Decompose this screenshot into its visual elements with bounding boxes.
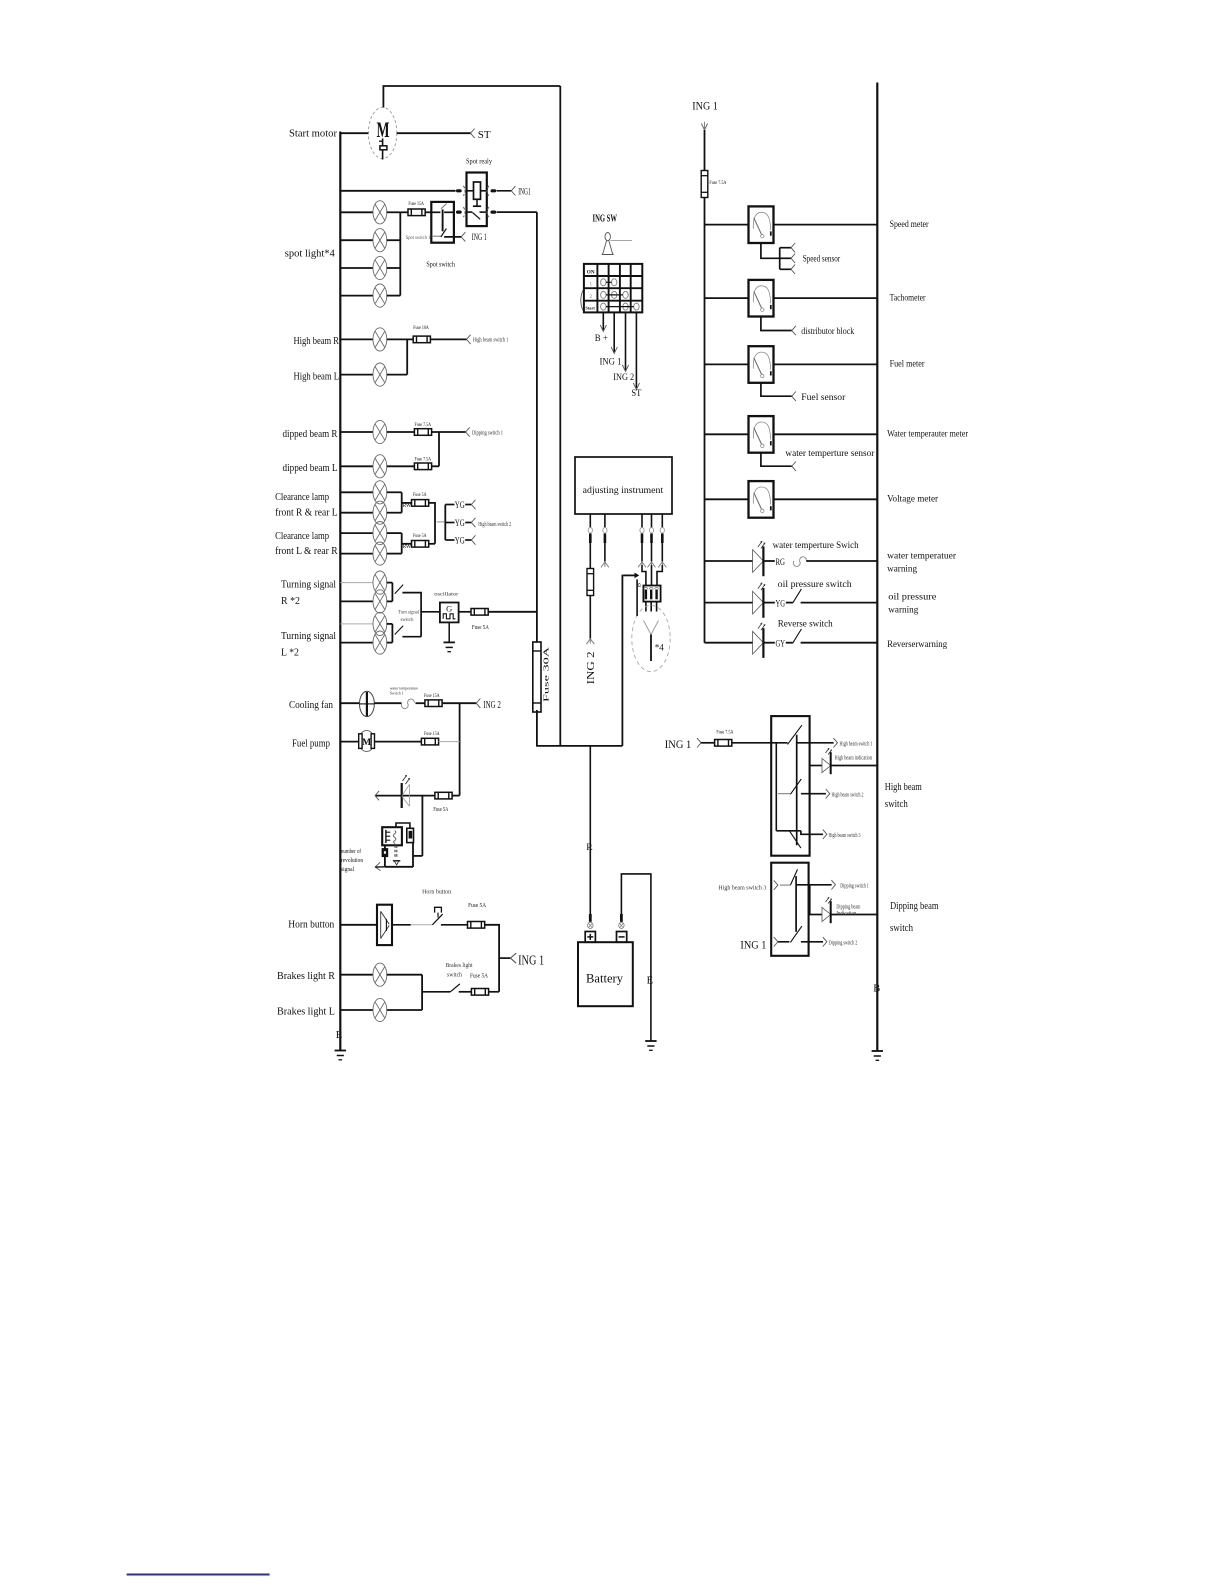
svg-text:dipped beam R: dipped beam R (283, 429, 338, 440)
svg-text:Speed sensor: Speed sensor (803, 254, 841, 264)
svg-text:Turn signal: Turn signal (398, 610, 419, 616)
svg-text:B: B (636, 582, 643, 587)
start motor M1 body dashed circle (368, 107, 396, 158)
svg-text:Fuse 7.5A: Fuse 7.5A (709, 180, 726, 186)
svg-text:Voltage meter: Voltage meter (887, 495, 939, 505)
wire ING1 bus to Voltage meter (705, 498, 749, 500)
lamp high beam L (373, 363, 387, 386)
wire right ING1 bus (704, 130, 706, 643)
svg-text:water temperture Swich: water temperture Swich (773, 541, 859, 551)
svg-text:Water temperauter meter: Water temperauter meter (887, 430, 969, 440)
fuse F fan 15A (425, 700, 442, 707)
lamp dipped beam R (373, 420, 387, 443)
fuse Fuse 30A on vertical branch (533, 642, 541, 712)
wire indication row (810, 765, 822, 767)
arrow ING SW terminal B + (600, 325, 606, 332)
wire ING1 branch vertical from spot relay (536, 212, 538, 643)
wire turn switch to oscillator (421, 611, 440, 613)
meter Tachometer (749, 280, 774, 317)
wire sensor pin down (661, 543, 663, 562)
svg-text:adjusting instrument: adjusting instrument (583, 486, 664, 496)
connector plug pin 1 (588, 528, 592, 544)
wire junction to YG connector block dash (437, 521, 444, 523)
wire ING1 bus to Water temperauter meter (705, 433, 749, 435)
svg-text:front L & rear R: front L & rear R (275, 546, 338, 557)
wire bus to horn (340, 924, 377, 926)
svg-text:Dipping beam: Dipping beam (890, 901, 939, 912)
wire brakes fuse to ING1 branch (489, 991, 500, 993)
connector arrow ING1 relay (511, 186, 515, 195)
wire fuse to high beam switch box (732, 742, 771, 744)
oscillator square wave (443, 614, 455, 619)
svg-text:ING1: ING1 (518, 188, 531, 198)
svg-text:ST: ST (478, 129, 491, 141)
wire clearance group2 collector (401, 533, 403, 554)
wire turning R lamp2 to joint (387, 600, 393, 602)
wire pin3 jog to rectifier (642, 565, 646, 586)
rectifier block (643, 586, 660, 602)
wire collector to fuse clearance 1 (402, 502, 412, 504)
horn push button actuator (435, 907, 442, 917)
fuse F clearance2 5A (412, 541, 429, 548)
lamp spot light 4 (373, 284, 387, 307)
meter Water temperauter meter (749, 416, 774, 453)
wire clearance lamp 2 to collector (387, 512, 402, 514)
svg-text:ING 1: ING 1 (665, 737, 692, 751)
ING SW connector table (584, 264, 642, 313)
wire horn switch to fuse (441, 924, 468, 926)
svg-text:High beam R: High beam R (294, 336, 340, 347)
wire bus to fuel pump (340, 741, 359, 743)
wire dipping indication to right bus (831, 914, 878, 916)
connector arrow ING 1 spot switch (461, 232, 465, 241)
arrow out1 (833, 738, 837, 747)
lamp spot light 2 (373, 229, 387, 252)
cooling fan motor symbol (360, 691, 375, 716)
wire bus to clearance lamp 4 (340, 553, 373, 555)
arrow ING 1 dipping (774, 937, 778, 946)
wire brakes switch to fuse (459, 991, 472, 993)
lamp clearance 4 (373, 542, 387, 565)
svg-text:High beam switch 3: High beam switch 3 (829, 833, 861, 839)
ground symbol left bus (335, 1051, 346, 1060)
arrow out3 (823, 830, 827, 839)
svg-text:oil pressure: oil pressure (888, 593, 936, 603)
wire alternator B output (623, 573, 639, 616)
wire high beam L lamp to junction (387, 374, 408, 376)
wire adjusting instrument pin 2 (604, 514, 606, 528)
wire dipping indication row (809, 914, 822, 916)
wire bus to spot lamp 4 (340, 295, 373, 297)
wire below Fuse 30A to bottom bus (536, 710, 538, 746)
wire warning to right bus (801, 602, 878, 604)
svg-text:Fuse 7.5A: Fuse 7.5A (716, 730, 733, 736)
connector plug pin 3 (640, 528, 644, 544)
switch blade oil pressure switch (793, 589, 802, 603)
wire spot lamp 1 to collector (387, 211, 401, 213)
svg-text:M: M (377, 117, 390, 142)
wire ING1 bus to warning 2 (705, 602, 753, 604)
svg-text:Fuse 15A: Fuse 15A (408, 201, 424, 207)
wire water temp meter to sensor (761, 453, 792, 467)
thermal switch water warning (793, 557, 806, 567)
wire turning L lamp2 to joint (387, 642, 393, 644)
wire GY stub (786, 642, 793, 644)
wire relay coil internal (467, 190, 487, 192)
svg-text:dipped beam L: dipped beam L (283, 463, 338, 474)
wire ING1 bus to Tachometer (705, 297, 749, 299)
lamp clearance 1 (373, 481, 387, 504)
svg-text:Clearance lamp: Clearance lamp (275, 531, 329, 542)
svg-text:oscillator: oscillator (434, 591, 458, 597)
wire left main earth bus (339, 132, 341, 1050)
wire flasher fuse to ING1 branch (488, 611, 537, 613)
wire alternator B output down to bottom bus (621, 575, 623, 746)
svg-text:RG: RG (776, 558, 786, 568)
wire bus to dipped beam L lamp (340, 465, 373, 467)
connector pair relay coil left (456, 186, 465, 196)
connector arrow dipping switch 1 (466, 427, 470, 436)
indicator lamp warning 2 (753, 583, 765, 618)
wire YG stub 2 (445, 522, 454, 524)
wire YG stub 1 (445, 504, 454, 506)
wire battery positive drop (589, 746, 591, 914)
battery BT1 box (578, 942, 633, 1006)
arrow sensor pin (648, 562, 656, 567)
wire sensor pin down (651, 543, 653, 562)
wire brakes R lamp to joint (387, 974, 422, 976)
wire horn contact gray (411, 924, 433, 926)
wire indication to right bus (831, 765, 878, 767)
battery negative terminal (617, 932, 627, 943)
wire pin1 to fuse (589, 543, 591, 568)
svg-text:RW: RW (403, 543, 412, 550)
wire ING1 bus to warning 3 (705, 642, 753, 644)
lamp spot light 1 (373, 201, 387, 224)
wire spot lamp collector vertical (399, 212, 401, 295)
indicator lamp dipping beam (822, 898, 832, 924)
wire clearance lamp 3 to collector (387, 532, 402, 534)
wire bus to high beam R lamp (340, 338, 373, 340)
wire bus to clearance lamp 3 (340, 532, 373, 534)
svg-text:High beam switch 1: High beam switch 1 (840, 742, 873, 748)
connector arrow speed sensor pin (791, 243, 795, 252)
wire adjusting instrument pin 5 (661, 514, 663, 528)
wire turning L lamp1 to joint (387, 623, 393, 625)
battery positive clamp (588, 922, 593, 928)
ignition device assembly (382, 823, 422, 867)
svg-text:Fuse 5A: Fuse 5A (413, 533, 427, 539)
svg-text:ING 1: ING 1 (518, 952, 544, 967)
wire pump fuse to branch gray (439, 741, 460, 743)
lamp spot light 3 (373, 256, 387, 279)
wire dipped R fuse to arrow (432, 431, 466, 433)
lamp dipped beam L (373, 455, 387, 478)
high beam switch box (771, 716, 809, 856)
svg-text:Dipping switch 2: Dipping switch 2 (829, 941, 858, 947)
connector arrow fuel sensor (792, 392, 796, 401)
svg-text:Fuse 15A: Fuse 15A (424, 693, 440, 699)
svg-text:Speed meter: Speed meter (890, 220, 930, 230)
alternator G1 dashed body (632, 605, 670, 671)
svg-text:*4: *4 (655, 643, 665, 653)
svg-text:ING 1: ING 1 (740, 938, 766, 952)
wire adjusting instrument pin 4 (651, 514, 653, 528)
svg-text:Fuse 30A: Fuse 30A (543, 647, 551, 702)
wire lamp to RG (763, 560, 774, 562)
wire ING SW terminal ING 2 (625, 312, 627, 370)
svg-text:High beam switch 3: High beam switch 3 (718, 885, 766, 891)
wire horn to button contact (392, 924, 411, 926)
wire bottom horizontal bus to battery feed (536, 745, 622, 747)
arrow out2 (826, 789, 830, 798)
wire ING1 bus to warning 1 (705, 560, 753, 562)
svg-text:oil pressure switch: oil pressure switch (778, 580, 852, 590)
wire relay coil to ING1 arrow (497, 190, 512, 192)
svg-text:warning: warning (887, 565, 917, 575)
wire pin2 down (604, 543, 606, 562)
svg-text:front R & rear L: front R & rear L (275, 507, 338, 518)
svg-text:YG: YG (455, 537, 465, 547)
connector arrow water temp sensor (792, 462, 796, 471)
arrow ING SW terminal ST (633, 383, 639, 390)
wire dipped beam junction vertical (438, 432, 440, 466)
fuse F dipped R 7.5A (414, 429, 431, 436)
arrow ING SW terminal ING 1 (611, 347, 617, 354)
svg-text:ING 2: ING 2 (613, 373, 634, 383)
switch blade horn button (432, 914, 442, 925)
svg-text:Dipping beam: Dipping beam (836, 904, 860, 910)
wire spot switch to ING 1 arrow (444, 236, 461, 238)
wire brakes joint vertical (421, 975, 423, 1010)
connector plug pin 2 (603, 528, 607, 544)
wire YG stub 3 (445, 539, 454, 541)
lamp turning signal R2 (373, 590, 387, 613)
svg-text:E: E (336, 1030, 342, 1041)
connector arrow YG 1 (471, 500, 475, 509)
connector arrow revolution signal (375, 862, 385, 870)
fuse F rev 5A (435, 792, 452, 799)
arrow sensor pin (638, 562, 646, 567)
wire collector to fuse spot (400, 211, 408, 213)
svg-text:Turning signal: Turning signal (281, 631, 336, 642)
svg-text:Reverserwarning: Reverserwarning (887, 640, 947, 650)
wire start motor to ST connector (397, 132, 471, 134)
svg-text:L *2: L *2 (281, 647, 299, 658)
wire YG 2 to arrow (465, 522, 471, 524)
wire thick out1 to indication (808, 885, 811, 915)
fuse F flasher 5A (471, 609, 488, 616)
svg-text:2: 2 (590, 294, 593, 300)
svg-text:Fuel pump: Fuel pump (292, 739, 330, 750)
lamp brakes light R (373, 963, 387, 986)
arrow high beam switch 3 into box (774, 880, 778, 889)
connector arrow rev row left (375, 791, 379, 800)
wire high beam fuse to arrow (430, 338, 466, 340)
spot switch S1 box (431, 202, 454, 243)
fuse F brakes 5A (471, 989, 488, 996)
wire clearance2 fuse to junction (429, 543, 435, 545)
svg-text:High beam L: High beam L (294, 372, 340, 383)
wire dipped L fuse to junction (432, 465, 439, 467)
indicator lamp warning 1 (753, 542, 765, 577)
alternator Y winding (644, 621, 659, 662)
wire relay switch to ING1 vertical branch (497, 211, 537, 213)
wire adjusting instrument pin 1 (589, 514, 591, 528)
wire turn R switch output (402, 593, 421, 637)
wire ING1 bus to Speed meter (705, 224, 749, 226)
wire Voltage meter to right bus (774, 498, 878, 500)
battery positive terminal (585, 932, 595, 943)
svg-text:1: 1 (590, 281, 593, 287)
fuse F spot 15A (408, 209, 425, 216)
wire YG connector bar (444, 505, 446, 541)
wire lamp to YG (763, 602, 774, 604)
svg-text:Tachometer: Tachometer (890, 293, 927, 303)
lamp clearance 2 (373, 501, 387, 524)
svg-text:Fuel meter: Fuel meter (890, 360, 926, 370)
horn H1 symbol (377, 905, 392, 945)
wire bus to high beam L lamp (340, 374, 373, 376)
indicator lamp rev (402, 776, 410, 809)
switch blade turn signal R (395, 585, 404, 594)
wire Tachometer to right bus (774, 297, 878, 299)
svg-text:ING 2: ING 2 (483, 700, 501, 711)
wire center vertical bus B+ (559, 86, 561, 746)
arrow dipping out2 (823, 937, 827, 946)
svg-text:High beam indication: High beam indication (835, 756, 873, 762)
wire high beam switch out2 (801, 793, 826, 795)
ground symbol battery (645, 1041, 656, 1050)
wire turn L switch output (402, 636, 421, 638)
wire rev device feed vertical (421, 796, 423, 856)
connector arrow high beam switch 1 (467, 335, 471, 344)
svg-text:Cooling fan: Cooling fan (289, 700, 334, 711)
connector plug pin 5 (660, 528, 664, 544)
svg-text:Horn button: Horn button (422, 890, 451, 896)
svg-text:Fuse 5A: Fuse 5A (413, 492, 427, 498)
svg-text:Brakes light L: Brakes light L (277, 1006, 335, 1017)
svg-text:distributor block: distributor block (801, 327, 854, 337)
spot relay switch contact (467, 212, 487, 219)
wire bus to spot lamp 3 (340, 267, 373, 269)
wire collector to fuse clearance 2 (402, 543, 412, 545)
svg-text:E: E (647, 976, 653, 987)
svg-text:ING 1: ING 1 (600, 358, 622, 368)
wire dipped beam L lamp to fuse (387, 465, 415, 467)
wire bus to brakes L lamp (340, 1009, 373, 1011)
arrow sensor pin (658, 562, 666, 567)
wire turning L joint vertical (391, 624, 393, 643)
wire horn fuse to ING1 branch (485, 925, 499, 992)
wire ING 1 stub (499, 957, 510, 959)
wire ING1 to fuse highbeam (701, 742, 715, 744)
table contacts row 1 (601, 279, 617, 286)
wires rectifier to alternator (646, 602, 657, 612)
wire Speed meter to right bus (774, 224, 878, 226)
ground symbol oscillator (444, 642, 455, 651)
wire dipping out2 (801, 941, 823, 943)
lamp turning signal L1 (373, 612, 387, 635)
svg-text:GY: GY (776, 640, 786, 650)
svg-text:ING 2: ING 2 (586, 651, 597, 684)
wire ING SW terminal B + (602, 312, 604, 330)
svg-text:Spot switch 1: Spot switch 1 (406, 235, 431, 241)
wire high beam junction vertical (406, 339, 408, 374)
svg-text:Dipping switch 1: Dipping switch 1 (840, 884, 869, 890)
wire clearance1 fuse to junction (429, 503, 435, 544)
svg-text:B: B (873, 983, 880, 994)
connector arrow distributor block (792, 326, 796, 335)
indicator lamp warning 3 (753, 623, 765, 658)
svg-text:Start motor: Start motor (289, 129, 337, 140)
indicator lamp high beam (822, 749, 832, 775)
svg-text:ING SW: ING SW (593, 214, 618, 225)
svg-text:YG: YG (455, 519, 465, 529)
svg-text:YG: YG (455, 501, 465, 511)
arrow ING 1 top (701, 123, 707, 130)
wire left bus to relay coil (340, 190, 455, 192)
connector plug pin 4 (649, 528, 653, 544)
wire ING SW terminal ING 1 (613, 312, 615, 352)
meter Speed meter (749, 206, 774, 243)
wire fuel meter to fuel sensor (761, 383, 792, 397)
svg-text:Turning signal: Turning signal (281, 579, 336, 590)
svg-text:number of: number of (341, 848, 361, 855)
svg-text:Brakes light R: Brakes light R (277, 971, 335, 982)
svg-text:water temperatuer: water temperatuer (887, 552, 957, 562)
svg-text:revolution: revolution (341, 858, 363, 864)
wire lamp to GY (763, 642, 774, 644)
wire dipping out1 (796, 884, 832, 886)
connector pair relay switch left (456, 207, 465, 217)
wire spot lamp 4 to collector (387, 295, 401, 297)
wire thermal switch to fuse (416, 702, 426, 704)
meter Voltage meter (749, 481, 774, 518)
svg-text:R *2: R *2 (281, 596, 300, 607)
svg-text:Fuse 7.5A: Fuse 7.5A (415, 456, 432, 462)
svg-text:R: R (586, 843, 593, 853)
svg-text:High beam switch 2: High beam switch 2 (832, 793, 864, 799)
wire Fuel meter to right bus (774, 363, 878, 365)
wire bus to turning L lamp2 (340, 642, 373, 644)
table contacts row 3 (601, 303, 640, 310)
switch blade turn signal L (395, 626, 404, 635)
wire brakes L lamp to joint (387, 1009, 422, 1011)
wire turning R lamp1 to joint (387, 582, 393, 584)
svg-text:switch: switch (401, 617, 414, 623)
wire ING1 bus to Fuel meter (705, 363, 749, 365)
fuse F horn 5A (468, 922, 485, 929)
dipping beam switch box (771, 863, 808, 956)
arrow ING 1 highbeam (697, 738, 701, 747)
wire rev lamp row (376, 795, 435, 797)
wire bus to clearance lamp 2 (340, 512, 373, 514)
svg-text:Fuse 7.5A: Fuse 7.5A (415, 422, 432, 428)
spot relay K1 box (467, 173, 487, 227)
wire brakes joint to switch (422, 991, 450, 993)
wire spot lamp 3 to collector (387, 267, 401, 269)
wire turning R joint vertical (391, 583, 393, 602)
battery negative clamp (619, 922, 624, 928)
svg-text:Fuse 5A: Fuse 5A (472, 624, 489, 631)
svg-text:warning: warning (888, 606, 918, 616)
wire pin4 to rectifier (651, 565, 653, 586)
wire pin5 jog to rectifier (657, 565, 662, 586)
adjusting instrument box (575, 457, 672, 514)
svg-text:Fuel sensor: Fuel sensor (801, 393, 846, 403)
svg-text:High beam switch 2: High beam switch 2 (478, 522, 511, 528)
